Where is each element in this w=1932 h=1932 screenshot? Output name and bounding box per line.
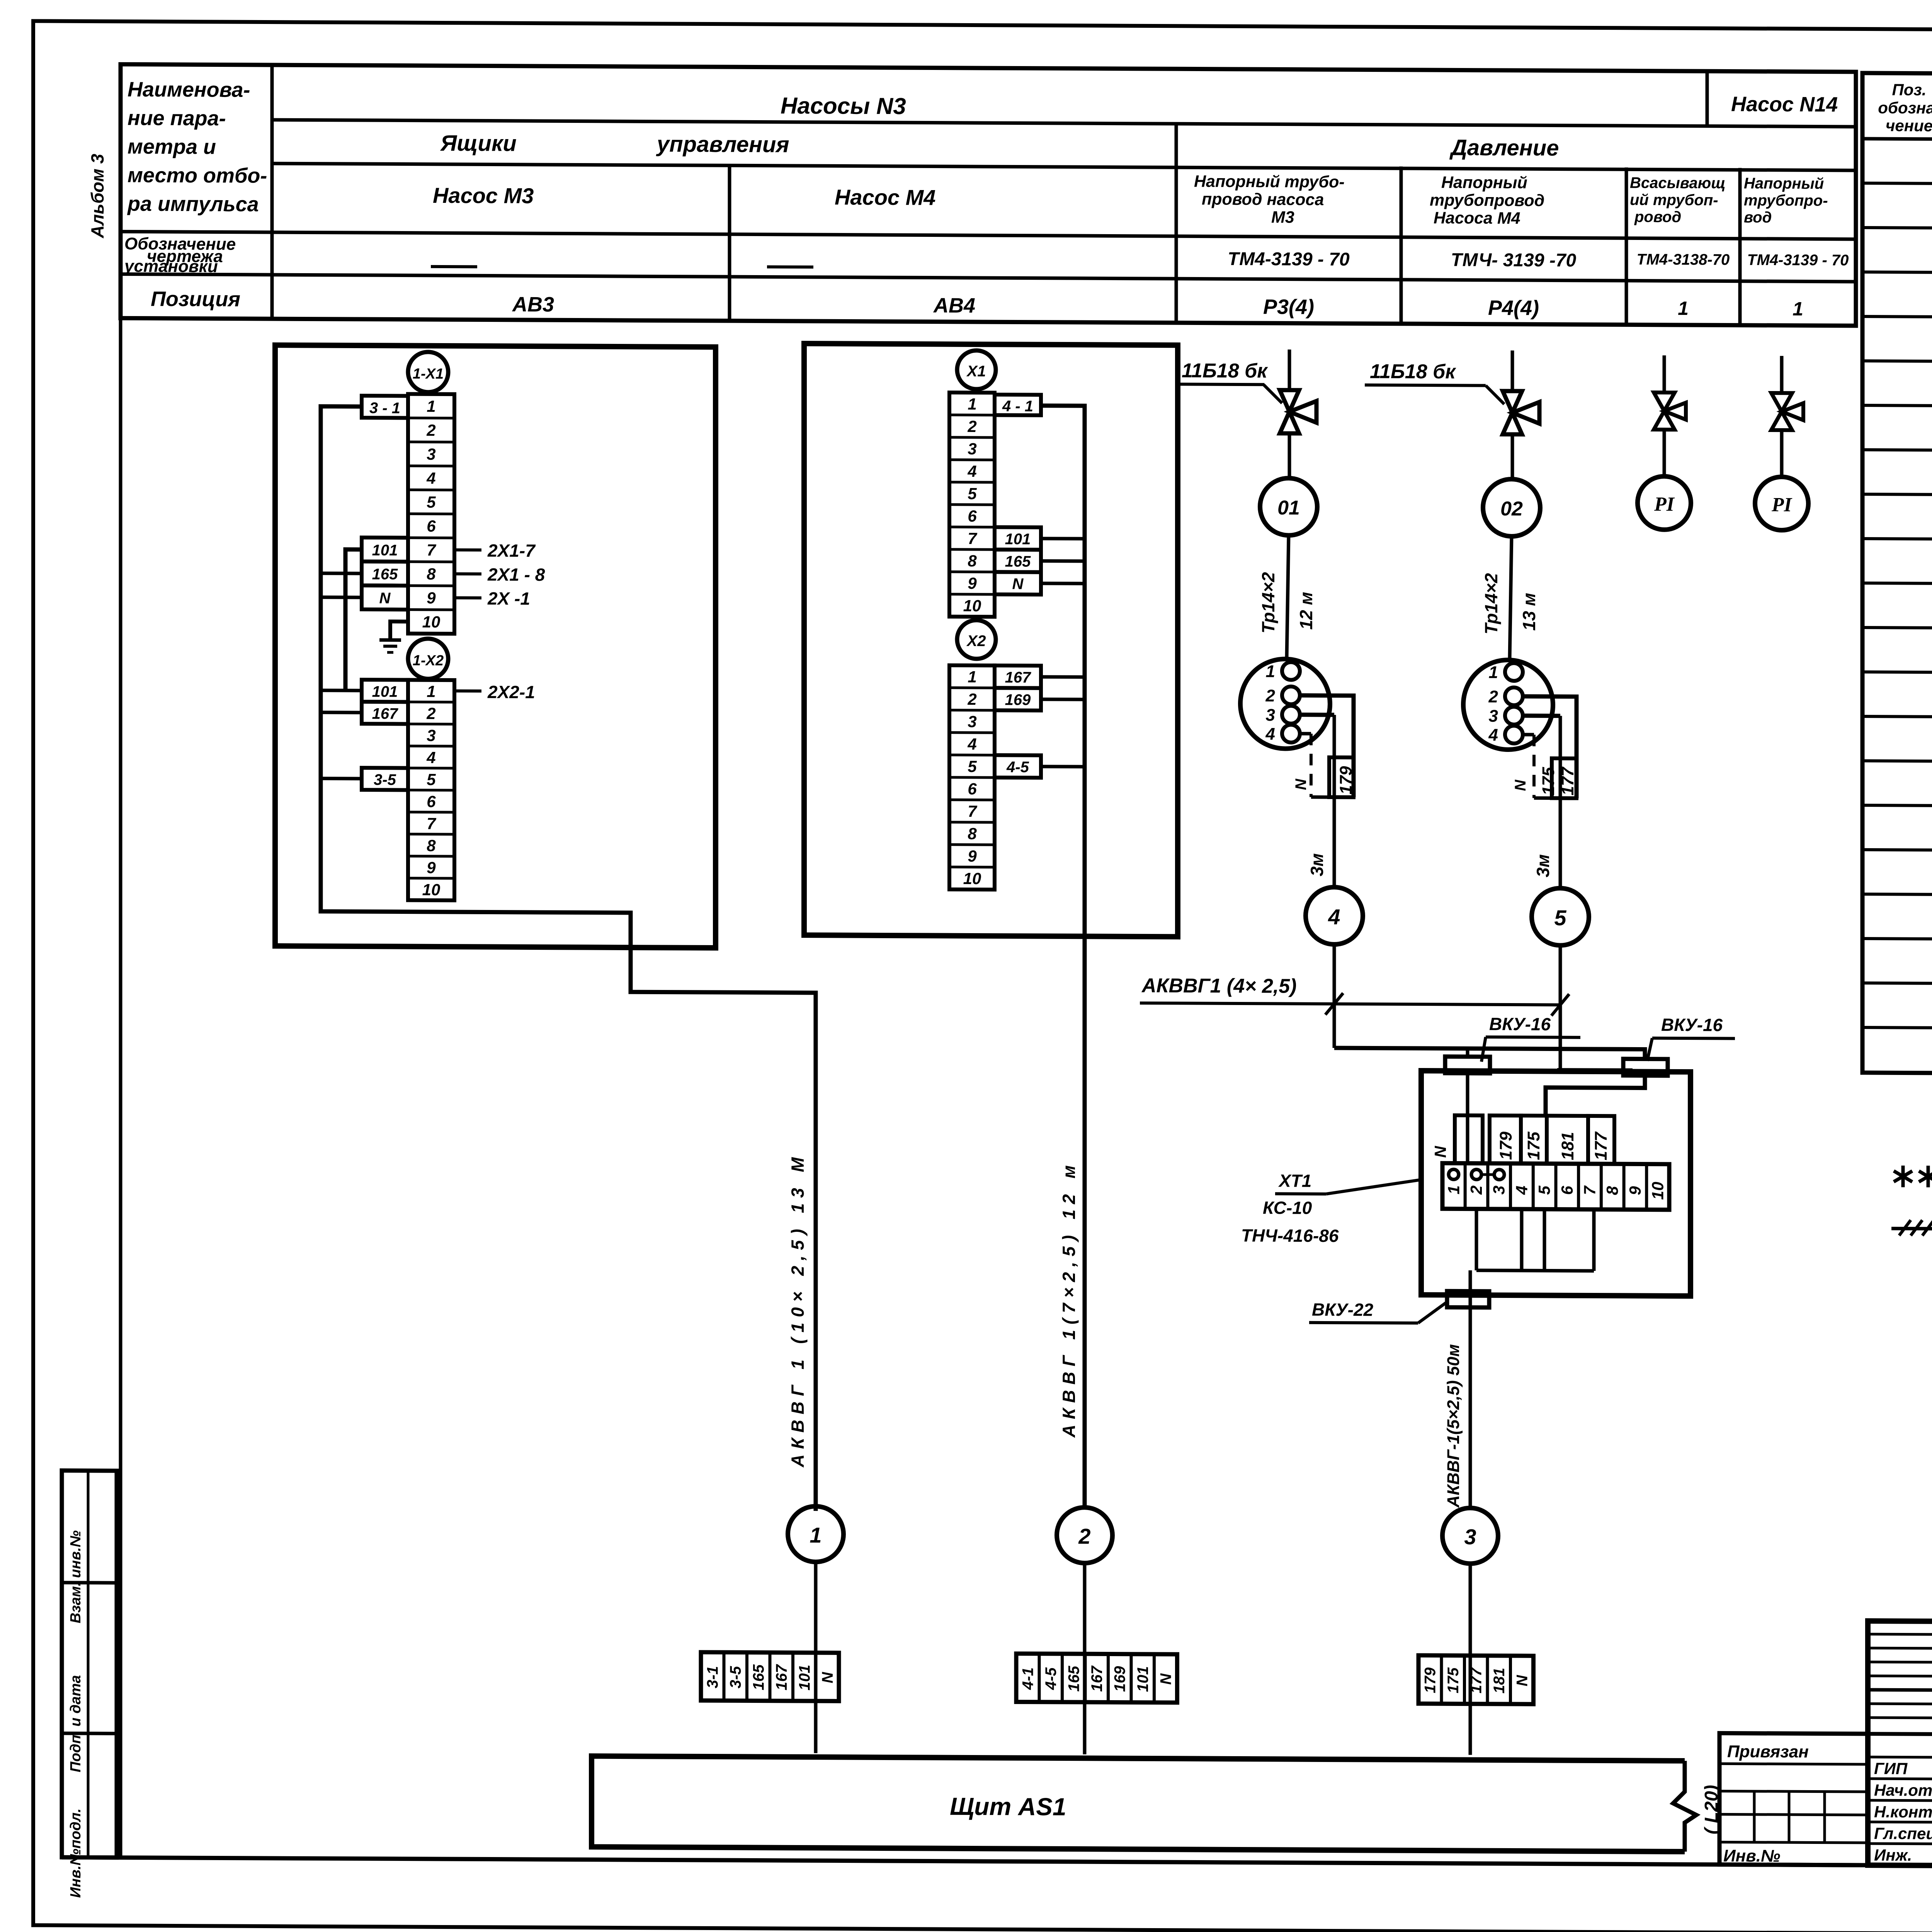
svg-text:7: 7 <box>968 529 977 548</box>
dash value M3 <box>431 265 477 269</box>
svg-text:4-1: 4-1 <box>1020 1667 1037 1690</box>
svg-text:181: 181 <box>1491 1668 1508 1694</box>
label box 101 (X1:7) <box>995 527 1041 550</box>
Привязан sub-table <box>1719 1733 1868 1865</box>
svg-text:N: N <box>379 590 391 607</box>
collector wire АВ4 <box>1041 406 1085 1508</box>
label box 165 (1-X1:8) <box>362 561 408 586</box>
svg-text:175: 175 <box>1524 1131 1543 1160</box>
circle node 4 <box>1306 887 1363 945</box>
svg-text:101: 101 <box>372 683 398 700</box>
svg-text:5: 5 <box>1535 1185 1553 1195</box>
wire circle1 to AS1 <box>814 1562 818 1753</box>
svg-text:4: 4 <box>1512 1185 1531 1195</box>
svg-text:1: 1 <box>1489 663 1498 682</box>
branch to VKU-16 A <box>1466 1049 1469 1058</box>
svg-text:трубопровод: трубопровод <box>1430 191 1544 210</box>
junction slash at wire 4 <box>1325 993 1343 1015</box>
title block horizontals <box>1868 1634 1932 1635</box>
svg-text:PI: PI <box>1654 493 1675 515</box>
XT1 terminal strip <box>1442 1163 1669 1210</box>
svg-text:Привязан: Привязан <box>1727 1742 1809 1761</box>
svg-text:8: 8 <box>968 825 977 843</box>
svg-text:PI: PI <box>1771 494 1793 516</box>
cable designation line <box>1140 1003 1560 1005</box>
ground wire from 1-X1:10 <box>390 621 408 640</box>
parts table outline <box>1862 73 1932 1076</box>
svg-text:АКВВГ-1(5×2,5) 50м: АКВВГ-1(5×2,5) 50м <box>1444 1344 1463 1508</box>
XT1 lower wires <box>1475 1209 1478 1270</box>
AS1 break symbol <box>1673 1761 1696 1852</box>
svg-text:Позиция: Позиция <box>151 287 240 311</box>
label box 3-5 (1-X2:5) <box>362 768 408 790</box>
tap N (X1:9) <box>1041 582 1085 585</box>
header table horizontals <box>272 120 1856 127</box>
parts table row line 6 <box>1862 405 1932 409</box>
header table verticals <box>270 65 274 319</box>
PI valve at 4611 <box>1780 356 1784 393</box>
svg-text:3: 3 <box>1464 1525 1476 1549</box>
svg-text:165: 165 <box>750 1664 767 1690</box>
svg-text:КС-10: КС-10 <box>1263 1197 1312 1218</box>
svg-text:8: 8 <box>427 837 436 855</box>
svg-text:4: 4 <box>426 469 435 487</box>
terminal strip circle X2 <box>957 620 996 659</box>
wire tap to N <box>321 595 362 599</box>
svg-text:2X1 - 8: 2X1 - 8 <box>487 564 545 585</box>
svg-text:2: 2 <box>967 690 976 708</box>
svg-text:АВ4: АВ4 <box>933 294 975 317</box>
svg-text:АВ3: АВ3 <box>512 293 554 316</box>
svg-text:1: 1 <box>427 682 435 701</box>
svg-text:10: 10 <box>422 881 440 899</box>
svg-text:Гл.спец.: Гл.спец. <box>1874 1824 1932 1843</box>
terminal strip 1-X2 <box>408 680 454 901</box>
svg-text:9: 9 <box>427 859 436 877</box>
svg-text:3: 3 <box>1490 1185 1508 1195</box>
svg-text:6: 6 <box>1558 1185 1576 1195</box>
svg-text:8: 8 <box>1603 1186 1621 1195</box>
svg-text:2: 2 <box>1488 687 1498 706</box>
svg-text:N: N <box>1012 575 1024 592</box>
svg-text:установки: установки <box>124 257 218 276</box>
label box 101 (1-X2:1) <box>362 680 408 702</box>
svg-text:1-X2: 1-X2 <box>413 653 444 669</box>
svg-text:02: 02 <box>1500 498 1523 520</box>
svg-text:10: 10 <box>1649 1182 1667 1200</box>
svg-text:169: 169 <box>1005 691 1031 708</box>
svg-text:7: 7 <box>968 802 977 820</box>
wire inside XT1 from A <box>1466 1073 1469 1165</box>
parts table row line 5 <box>1862 361 1932 364</box>
svg-text:181: 181 <box>1558 1132 1577 1160</box>
svg-text:177: 177 <box>1468 1667 1485 1694</box>
terminal strip 1-X1 <box>408 394 454 634</box>
svg-text:Всасывающ: Всасывающ <box>1630 174 1726 192</box>
svg-text:1: 1 <box>427 397 435 415</box>
wire stub 2X2-1 <box>454 689 481 692</box>
wire 02 to thermowell 2 <box>1510 536 1512 660</box>
circle node 5 <box>1532 888 1589 946</box>
svg-text:175: 175 <box>1445 1667 1462 1694</box>
wire tap to 101 (1-X2) <box>321 689 362 692</box>
svg-text:01: 01 <box>1277 497 1300 519</box>
svg-text:165: 165 <box>372 566 398 583</box>
svg-text:6: 6 <box>427 517 436 535</box>
svg-text:167: 167 <box>1005 669 1031 686</box>
svg-text:12 м: 12 м <box>1296 592 1316 630</box>
label box N (1-X1:9) <box>362 585 408 610</box>
thermowell2 wiring bracket <box>1523 696 1577 798</box>
wire 01 to thermowell 1 <box>1287 536 1289 659</box>
svg-text:9: 9 <box>968 574 977 592</box>
legend демонтировать <box>1891 1227 1932 1231</box>
svg-text:Насос N14: Насос N14 <box>1731 93 1838 116</box>
thermowell circle 1 <box>1240 659 1330 749</box>
parts table header bottom <box>1862 139 1932 142</box>
svg-text:Тр14×2: Тр14×2 <box>1258 572 1278 633</box>
svg-text:175: 175 <box>1539 767 1558 795</box>
parts table row line 16 <box>1862 850 1932 853</box>
svg-text:3: 3 <box>427 445 435 463</box>
svg-text:3-5: 3-5 <box>727 1666 744 1689</box>
svg-text:11Б18 бк: 11Б18 бк <box>1182 359 1268 382</box>
svg-text:6: 6 <box>968 780 977 798</box>
svg-text:7: 7 <box>427 815 436 833</box>
thermowell1 wiring bracket <box>1300 696 1354 798</box>
svg-text:3: 3 <box>968 440 976 458</box>
parts table row line 9 <box>1862 539 1932 542</box>
wire tap to 165 <box>321 571 362 575</box>
wire stub 2X1-8 <box>454 572 481 575</box>
ground symbol <box>379 638 401 642</box>
svg-text:2X1-7: 2X1-7 <box>487 540 536 561</box>
label box N (X1:9) <box>995 572 1041 595</box>
svg-text:Р4(4): Р4(4) <box>1488 296 1539 320</box>
parts table row line 18 <box>1862 939 1932 942</box>
valve 11Б18бк #1 <box>1288 350 1291 390</box>
label box 101 (1-X1:7) <box>362 537 408 562</box>
svg-text:7: 7 <box>427 541 436 559</box>
svg-text:9: 9 <box>427 589 436 607</box>
svg-text:9: 9 <box>1626 1186 1644 1195</box>
svg-text:4: 4 <box>967 462 976 480</box>
svg-text:Подп. и дата: Подп. и дата <box>68 1675 84 1772</box>
label box 169 (X2:2) <box>995 688 1041 711</box>
label box 167 (X2:1) <box>995 665 1041 688</box>
svg-text:5: 5 <box>427 493 436 511</box>
wire circle2 to AS1 <box>1083 1563 1087 1754</box>
svg-text:3: 3 <box>968 713 976 731</box>
svg-text:ТМ4-3139 - 70: ТМ4-3139 - 70 <box>1747 252 1849 269</box>
svg-text:АКВВГ1 (4× 2,5): АКВВГ1 (4× 2,5) <box>1141 975 1297 998</box>
parts table row line 15 <box>1862 805 1932 809</box>
VKU-16 connector B <box>1623 1059 1668 1076</box>
svg-text:5: 5 <box>968 485 977 503</box>
wire 5 to VKU-16 B <box>1557 1068 1633 1072</box>
circle node 3 <box>1442 1508 1498 1564</box>
PI valve at 4307 <box>1663 355 1666 393</box>
wire inside XT1 from B <box>1546 1075 1645 1117</box>
svg-text:ВКУ-22: ВКУ-22 <box>1312 1299 1374 1320</box>
parts table row line 3 <box>1862 272 1932 276</box>
junction box XT1 <box>1421 1071 1690 1296</box>
svg-text:ТНЧ-416-86: ТНЧ-416-86 <box>1241 1225 1339 1246</box>
svg-text:169: 169 <box>1112 1666 1129 1692</box>
XT1 upper label boxes <box>1455 1115 1483 1163</box>
svg-text:3: 3 <box>427 726 435 745</box>
svg-text:ВКУ-16: ВКУ-16 <box>1661 1015 1723 1035</box>
junction slash at wire 5 <box>1551 994 1569 1016</box>
svg-text:165: 165 <box>1005 553 1031 570</box>
svg-text:5: 5 <box>968 757 977 776</box>
wire valve1 to 01 <box>1288 434 1291 478</box>
label box 4-1 (X1:1) <box>995 395 1041 415</box>
svg-text:1: 1 <box>1266 662 1275 681</box>
svg-text:Щит AS1: Щит AS1 <box>950 1793 1066 1821</box>
svg-text:ровод: ровод <box>1634 208 1681 226</box>
svg-text:2: 2 <box>1467 1185 1485 1195</box>
content frame bottom edge <box>62 1857 1932 1869</box>
label box 165 (X1:8) <box>995 549 1041 572</box>
svg-text:Альбом 3: Альбом 3 <box>87 153 107 238</box>
svg-text:5: 5 <box>1554 906 1566 930</box>
svg-text:1: 1 <box>1793 298 1803 320</box>
label box 3-1 <box>362 396 408 418</box>
wire tap to 167 <box>321 711 362 714</box>
content frame left edge <box>119 64 122 1857</box>
legend домаркировать <box>1901 1165 1905 1187</box>
svg-text:3м: 3м <box>1533 854 1553 878</box>
parts table row line 17 <box>1862 894 1932 898</box>
svg-text:Ящики: Ящики <box>440 131 517 156</box>
wire thermowell2 down <box>1559 716 1562 888</box>
svg-text:Насос М4: Насос М4 <box>835 185 935 209</box>
thermowell1 terminal 1 <box>1282 662 1300 680</box>
svg-text:ГИП: ГИП <box>1874 1759 1908 1777</box>
svg-text:167: 167 <box>773 1664 790 1690</box>
svg-text:трубопро-: трубопро- <box>1744 192 1828 209</box>
svg-text:управления: управления <box>656 131 789 157</box>
svg-text:165: 165 <box>1066 1665 1083 1692</box>
svg-text:провод насоса: провод насоса <box>1202 190 1324 209</box>
svg-text:167: 167 <box>372 705 398 722</box>
title block <box>1868 1621 1932 1869</box>
control box АВ4 <box>804 344 1178 937</box>
svg-text:вод: вод <box>1744 209 1772 226</box>
svg-text:177: 177 <box>1592 1131 1611 1160</box>
terminal strip circle 1-X2 <box>408 639 448 679</box>
terminal group 1 <box>701 1652 839 1701</box>
XT1 terminal circles and jumper <box>1449 1169 1459 1179</box>
svg-text:ХТ1: ХТ1 <box>1278 1170 1311 1190</box>
instrument circle PI <box>1638 476 1691 530</box>
terminal strip circle 1-X1 <box>408 352 448 392</box>
svg-text:Насоса М4: Насоса М4 <box>1434 209 1520 228</box>
svg-text:Р3(4): Р3(4) <box>1263 295 1314 319</box>
svg-text:4: 4 <box>1488 726 1498 745</box>
svg-text:2: 2 <box>426 704 435 723</box>
svg-text:Нач.отд.: Нач.отд. <box>1874 1781 1932 1799</box>
valve 11Б18бк #2 <box>1511 350 1514 391</box>
parts table row line 8 <box>1862 494 1932 498</box>
thermowell1 terminal 3 <box>1282 706 1300 723</box>
svg-text:1: 1 <box>810 1523 821 1547</box>
wire 101 to 101 link <box>345 549 362 690</box>
svg-text:3: 3 <box>1489 707 1498 726</box>
svg-text:4: 4 <box>1265 724 1275 743</box>
svg-text:Давление: Давление <box>1449 135 1559 160</box>
tap 167 (X2:1) <box>1041 675 1085 679</box>
svg-text:11Б18 бк: 11Б18 бк <box>1370 360 1456 383</box>
svg-text:место отбо-: место отбо- <box>128 163 267 187</box>
svg-text:1: 1 <box>968 395 976 413</box>
terminal strip X2 (АВ4) <box>949 665 995 890</box>
svg-text:9: 9 <box>968 847 977 865</box>
svg-text:ТМ4-3139 - 70: ТМ4-3139 - 70 <box>1228 249 1350 270</box>
svg-text:10: 10 <box>963 597 981 615</box>
parts table row line 1 <box>1862 183 1932 187</box>
wire below circle 5 <box>1559 946 1562 1071</box>
svg-text:М3: М3 <box>1271 208 1294 226</box>
svg-text:АКВВГ 1(7×2,5) 12 м: АКВВГ 1(7×2,5) 12 м <box>1059 1160 1079 1438</box>
svg-text:167: 167 <box>1088 1665 1105 1692</box>
parts table row line 12 <box>1862 672 1932 675</box>
bracket box 175 177 <box>1552 759 1577 798</box>
parts table row line 10 <box>1862 583 1932 587</box>
svg-text:2: 2 <box>1078 1524 1090 1548</box>
circle node 2 <box>1057 1507 1112 1563</box>
svg-text:N: N <box>1431 1145 1449 1158</box>
svg-text:ВКУ-16: ВКУ-16 <box>1489 1014 1551 1034</box>
svg-text:N: N <box>1158 1673 1175 1685</box>
terminal strip circle X1 <box>957 350 996 389</box>
svg-text:ий трубоп-: ий трубоп- <box>1630 191 1718 209</box>
parts table row line 2 <box>1862 228 1932 231</box>
terminal group 3 <box>1418 1655 1534 1704</box>
svg-text:Наименова-: Наименова- <box>128 78 250 101</box>
left margin column boxes <box>62 1471 117 1858</box>
thermowell1 terminal 2 <box>1282 686 1300 704</box>
svg-text:6: 6 <box>427 793 436 811</box>
svg-text:4: 4 <box>967 735 976 753</box>
cabinet Щит AS1 <box>592 1756 1685 1852</box>
svg-text:10: 10 <box>963 869 981 888</box>
svg-text:N: N <box>1512 779 1529 791</box>
parts table row line 14 <box>1862 761 1932 764</box>
svg-text:4-5: 4-5 <box>1006 759 1029 776</box>
svg-text:4 - 1: 4 - 1 <box>1002 398 1033 415</box>
parts table row line 11 <box>1862 628 1932 631</box>
wire XT1 to circle 3 <box>1469 1270 1472 1508</box>
svg-text:179: 179 <box>1422 1667 1439 1693</box>
dash value M4 <box>767 265 813 269</box>
svg-text:10: 10 <box>422 613 440 631</box>
tap 4-5 (X2:5) <box>1041 765 1085 768</box>
instrument circle 02 <box>1483 479 1540 537</box>
wire stub 2X1-7 <box>454 548 481 551</box>
svg-text:2X2-1: 2X2-1 <box>487 682 535 702</box>
wire tap to 3-5 <box>321 777 362 780</box>
thermowell1 terminal 4 <box>1282 724 1300 742</box>
svg-text:обозна-: обозна- <box>1878 99 1932 117</box>
svg-text:X1: X1 <box>966 363 986 380</box>
VKU-16 connector A <box>1445 1056 1490 1073</box>
thermowell2 terminal 2 <box>1505 687 1523 705</box>
svg-text:3 - 1: 3 - 1 <box>369 400 400 417</box>
thermowell circle 2 <box>1463 660 1553 750</box>
svg-text:4-5: 4-5 <box>1043 1667 1060 1690</box>
instrument circle PI <box>1755 477 1808 531</box>
svg-text:ние пара-: ние пара- <box>128 106 226 130</box>
svg-text:13 м: 13 м <box>1519 593 1539 631</box>
svg-text:Н.контр.: Н.контр. <box>1874 1803 1932 1821</box>
label box 167 (1-X2:2) <box>362 702 408 724</box>
svg-text:Инж.: Инж. <box>1874 1846 1912 1864</box>
svg-text:5: 5 <box>427 770 436 789</box>
VKU-22 connector <box>1447 1291 1489 1307</box>
svg-text:Инв.№: Инв.№ <box>1723 1846 1780 1866</box>
svg-text:X2: X2 <box>966 633 986 650</box>
wire below circle 4 <box>1333 944 1336 1048</box>
svg-text:2: 2 <box>1265 686 1276 705</box>
parts table row line 20 <box>1862 1027 1932 1031</box>
svg-text:3м: 3м <box>1307 853 1327 876</box>
svg-text:ТМ4-3138-70: ТМ4-3138-70 <box>1637 251 1730 268</box>
svg-text:чение: чение <box>1886 116 1932 135</box>
wire 4 to VKU-16 B <box>1334 1048 1645 1060</box>
label box 4-5 (X2:5) <box>995 755 1041 778</box>
svg-text:7: 7 <box>1581 1185 1599 1195</box>
terminal strip X1 (АВ4) <box>949 393 995 617</box>
svg-text:1: 1 <box>1678 298 1689 319</box>
circle node 1 <box>788 1506 844 1562</box>
wire thermowell1 down <box>1333 715 1336 887</box>
svg-text:метра и: метра и <box>128 135 216 158</box>
svg-text:2X -1: 2X -1 <box>487 588 530 608</box>
svg-text:101: 101 <box>1005 531 1031 548</box>
svg-text:179: 179 <box>1497 1131 1515 1160</box>
svg-text:N: N <box>1293 779 1310 790</box>
svg-text:2: 2 <box>967 417 976 435</box>
svg-text:Взам. инв.№: Взам. инв.№ <box>68 1531 84 1624</box>
svg-text:8: 8 <box>427 565 436 583</box>
svg-text:N: N <box>1514 1675 1531 1686</box>
terminal group 2 <box>1016 1653 1177 1702</box>
svg-text:ТМЧ- 3139 -70: ТМЧ- 3139 -70 <box>1451 250 1577 270</box>
svg-text:3-1: 3-1 <box>704 1666 721 1689</box>
thermowell2 terminal 4 <box>1505 726 1523 743</box>
svg-text:Напорный трубо-: Напорный трубо- <box>1194 172 1345 191</box>
svg-text:Напорный: Напорный <box>1441 173 1527 192</box>
svg-text:4: 4 <box>1328 905 1340 929</box>
tap 165 (X1:8) <box>1041 559 1085 563</box>
svg-text:2: 2 <box>426 421 435 439</box>
svg-text:3-5: 3-5 <box>374 771 396 788</box>
svg-text:АКВВГ 1 (10× 2,5) 13 М: АКВВГ 1 (10× 2,5) 13 М <box>787 1152 808 1468</box>
svg-text:N: N <box>819 1672 836 1683</box>
instrument circle 01 <box>1260 478 1317 536</box>
bracket box 179 <box>1329 757 1354 797</box>
parts table row line 4 <box>1862 316 1932 320</box>
parts table row line 13 <box>1862 716 1932 720</box>
svg-text:Инв.№подл.: Инв.№подл. <box>68 1808 84 1898</box>
svg-text:Поз.: Поз. <box>1892 80 1927 99</box>
wire valve2 to 02 <box>1511 434 1514 479</box>
svg-text:1: 1 <box>1444 1185 1463 1195</box>
wire circle 3 to AS1 <box>1469 1564 1472 1755</box>
parts table row line 19 <box>1862 983 1932 986</box>
